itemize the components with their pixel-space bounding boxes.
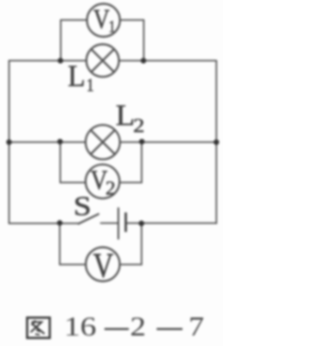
svg-text:16: 16	[64, 311, 96, 342]
svg-text:V: V	[93, 5, 109, 34]
wire row3 left segment to switch	[9, 222, 78, 224]
wire V1 branch top	[61, 19, 144, 21]
svg-text:V: V	[93, 246, 113, 284]
switch S lever	[78, 214, 98, 224]
svg-text:1: 1	[86, 75, 94, 95]
wire V branch right drop	[141, 223, 143, 264]
wire right rail	[215, 61, 217, 224]
wire row1 L1 row	[9, 60, 216, 62]
svg-text:2: 2	[105, 177, 115, 199]
node row2 right	[139, 139, 145, 145]
lamp L1	[86, 44, 119, 77]
wire V2 branch left drop	[59, 142, 61, 182]
voltmeter V2	[86, 164, 120, 199]
wire V branch left drop	[59, 223, 61, 264]
wire V branch bottom	[60, 263, 142, 265]
label L2	[116, 99, 145, 137]
node row1 right	[141, 58, 147, 64]
svg-text:7: 7	[188, 312, 204, 342]
battery short plate (-)	[125, 212, 127, 232]
battery long plate (+)	[117, 207, 119, 239]
node row3 right	[139, 221, 145, 227]
label L1	[68, 59, 94, 95]
node row3 left	[57, 220, 63, 226]
wire left rail	[8, 61, 10, 224]
wire V2 branch bottom	[60, 181, 141, 183]
node row2 left	[57, 139, 63, 145]
wire V1 branch left riser	[60, 20, 62, 61]
wire row2 L2 row	[9, 141, 216, 143]
svg-text:2: 2	[130, 312, 146, 342]
svg-text:L: L	[68, 59, 86, 93]
lamp L2	[86, 125, 120, 159]
voltmeter V1	[87, 4, 120, 37]
svg-text:S: S	[73, 191, 91, 221]
svg-text:L: L	[116, 99, 135, 132]
svg-text:2: 2	[133, 114, 144, 137]
wire V1 branch right riser	[143, 20, 145, 61]
voltmeter V	[86, 246, 120, 284]
node row2 rail-left	[6, 139, 12, 145]
caption character tu (figure)	[27, 318, 50, 338]
node row1 left	[58, 58, 64, 64]
svg-text:1: 1	[108, 18, 115, 36]
caption number 16-2-7	[64, 311, 204, 342]
wire row3 switch contact to battery	[101, 222, 118, 224]
node row2 rail-right	[214, 139, 220, 145]
wire V2 branch right drop	[141, 142, 143, 182]
wire row3 battery to right rail	[126, 222, 216, 224]
